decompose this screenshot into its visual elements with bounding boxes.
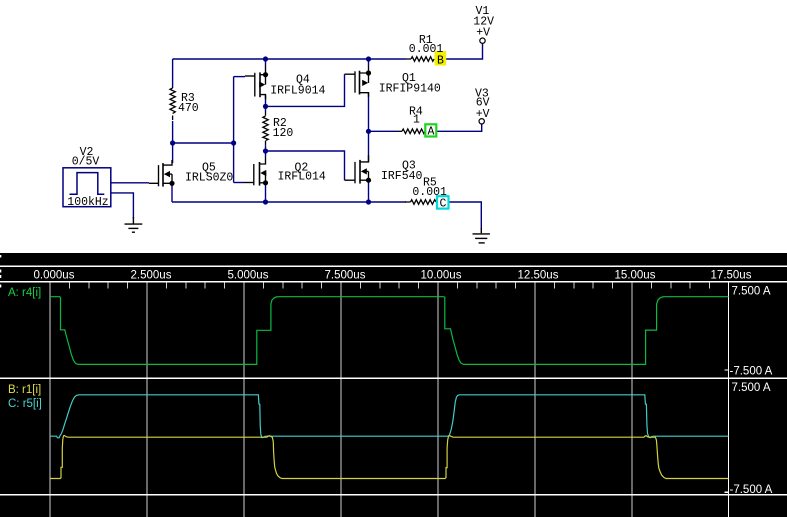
svg-text:IRFL9014: IRFL9014 <box>270 85 325 98</box>
svg-text:7.500 A: 7.500 A <box>732 382 771 394</box>
svg-text:C: r5[i]: C: r5[i] <box>8 398 42 410</box>
svg-text:A: r4[i]: A: r4[i] <box>8 287 41 299</box>
svg-text:470: 470 <box>178 102 199 115</box>
svg-text:17.50us: 17.50us <box>711 270 752 282</box>
svg-text:-7.500 A: -7.500 A <box>730 484 773 496</box>
svg-text:A: A <box>428 125 435 138</box>
svg-text:0.000us: 0.000us <box>34 270 75 282</box>
svg-text:100kHz: 100kHz <box>67 196 108 209</box>
svg-text:7.500us: 7.500us <box>325 270 366 282</box>
svg-text:7.500 A: 7.500 A <box>732 286 771 298</box>
svg-text:1: 1 <box>413 113 420 126</box>
svg-text:12.50us: 12.50us <box>518 270 559 282</box>
svg-text:IRFIP9140: IRFIP9140 <box>379 83 441 96</box>
svg-text:0/5V: 0/5V <box>72 156 100 169</box>
svg-text:-7.500 A: -7.500 A <box>730 366 773 378</box>
svg-text:IRLS0Z0: IRLS0Z0 <box>185 172 233 185</box>
svg-text:10.00us: 10.00us <box>421 270 462 282</box>
svg-text:C: C <box>440 198 447 211</box>
svg-text:B: r1[i]: B: r1[i] <box>8 384 41 396</box>
svg-text:5.000us: 5.000us <box>228 270 269 282</box>
svg-text:+V: +V <box>476 27 490 40</box>
svg-text:15.00us: 15.00us <box>615 270 656 282</box>
svg-text:+V: +V <box>476 108 490 121</box>
svg-text:2.500us: 2.500us <box>131 270 172 282</box>
svg-text:IRFL014: IRFL014 <box>278 171 326 184</box>
svg-text:IRF540: IRF540 <box>381 170 423 183</box>
svg-text:120: 120 <box>273 127 294 140</box>
svg-text:B: B <box>437 54 444 67</box>
